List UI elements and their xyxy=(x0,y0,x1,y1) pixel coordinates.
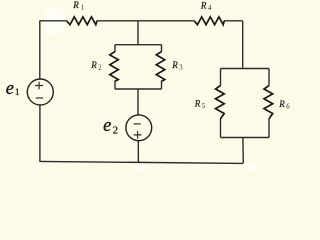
svg-text:2: 2 xyxy=(113,126,118,137)
e1 plus sign xyxy=(35,82,43,89)
wire R3 bottom leg xyxy=(161,81,163,89)
wire right block bottom bar (R5,R6) xyxy=(221,137,270,139)
svg-text:4: 4 xyxy=(208,5,212,12)
wire R6 bottom leg xyxy=(268,119,270,138)
wire middle stem xyxy=(137,21,139,45)
label R2 xyxy=(90,60,102,71)
resistor R2 xyxy=(110,52,119,82)
svg-text:R: R xyxy=(200,0,207,10)
wire left rail upper xyxy=(39,21,41,79)
svg-text:e: e xyxy=(103,116,111,136)
wire right block top bar (R5,R6) xyxy=(221,68,270,70)
wire R2 bottom leg xyxy=(114,81,116,89)
svg-text:6: 6 xyxy=(286,103,290,110)
wire left rail lower xyxy=(39,105,41,162)
svg-text:e: e xyxy=(6,79,14,99)
resistor R6 xyxy=(264,86,273,119)
svg-text:1: 1 xyxy=(81,4,84,11)
wire R5 bottom leg xyxy=(220,119,222,138)
label R3 xyxy=(171,60,183,71)
label R4 xyxy=(200,0,212,11)
wire R5 top leg xyxy=(220,69,222,86)
voltage source e2 xyxy=(126,115,152,141)
label e1 xyxy=(6,79,20,99)
svg-text:R: R xyxy=(90,60,97,70)
label e2 xyxy=(103,116,118,136)
e2 minus sign xyxy=(134,123,141,125)
wire R6 top leg xyxy=(268,69,270,86)
svg-text:R: R xyxy=(278,99,285,109)
wire R2 top leg xyxy=(114,45,116,52)
wire top-right horizontal xyxy=(224,20,243,22)
resistor R3 xyxy=(156,52,165,82)
scan artifact light patches xyxy=(45,8,255,171)
label R6 xyxy=(278,99,290,110)
wire e2 upper stem xyxy=(137,89,139,115)
svg-text:5: 5 xyxy=(202,103,206,110)
label R5 xyxy=(194,99,206,110)
resistor R1 xyxy=(67,17,97,25)
svg-text:1: 1 xyxy=(15,88,20,98)
wire bottom horizontal xyxy=(40,161,244,163)
svg-text:2: 2 xyxy=(98,64,102,71)
wire right rail lower xyxy=(242,138,244,164)
label R1 xyxy=(72,0,84,11)
voltage source e1 xyxy=(27,79,53,105)
resistor R4 xyxy=(194,17,224,25)
e2 plus sign xyxy=(134,131,142,138)
svg-text:3: 3 xyxy=(179,65,183,72)
e1 minus sign xyxy=(36,97,43,99)
wire parallel block bottom bar (R2,R3) xyxy=(115,88,162,90)
resistor R5 xyxy=(216,86,225,119)
wire R3 top leg xyxy=(161,45,163,52)
svg-text:R: R xyxy=(194,99,201,109)
wire right rail upper xyxy=(242,21,244,69)
svg-text:R: R xyxy=(72,0,79,10)
wire parallel block top bar (R2,R3) xyxy=(115,44,162,46)
wire top-left horizontal xyxy=(40,20,67,22)
svg-text:R: R xyxy=(171,60,178,70)
wire e2 lower stem xyxy=(137,141,139,163)
wire top-middle horizontal xyxy=(97,20,194,22)
